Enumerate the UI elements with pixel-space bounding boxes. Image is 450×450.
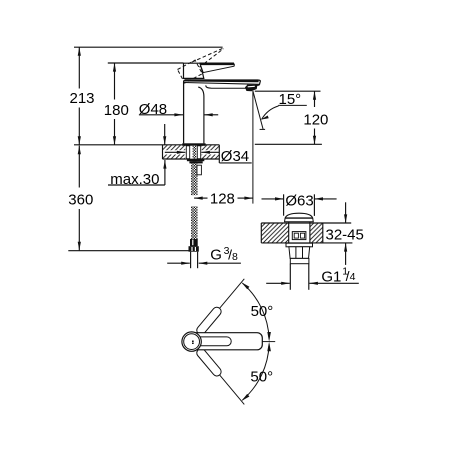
svg-text:Ø48: Ø48: [139, 101, 167, 118]
dimension 180: [104, 63, 129, 145]
faucet body circle (plan view): [182, 332, 201, 351]
extension line top of handle (180 ref): [108, 62, 184, 64]
dimension 213: [69, 47, 94, 145]
drain collar: [290, 258, 309, 263]
dimension G1 1/4: [266, 266, 359, 286]
water stream 15 deg line: [253, 91, 265, 130]
dimension 32-45: [326, 202, 364, 265]
flexible hose lower segment: [191, 206, 198, 239]
label 50 deg lower: [250, 369, 273, 386]
base flange / gasket: [182, 143, 205, 146]
drain tail pipe G1 1/4: [290, 264, 309, 290]
svg-text:G1: G1: [321, 269, 341, 286]
dimension diameter 48: [139, 101, 218, 118]
svg-text:Ø63: Ø63: [285, 193, 313, 210]
handle raised position (dashed): [178, 48, 224, 83]
extension line top of raised handle (213 ref): [74, 46, 223, 48]
svg-text:8: 8: [232, 251, 238, 263]
handle boss: [184, 63, 204, 78]
lever horizontal extension line (plan): [262, 341, 275, 343]
svg-text:180: 180: [104, 102, 129, 119]
svg-text:360: 360: [68, 191, 93, 208]
handle outline rotated down 50 deg: [195, 347, 223, 378]
label 50 deg upper: [251, 303, 274, 320]
drain nut: [289, 247, 310, 259]
50 deg arc upper with arrows: [241, 282, 271, 341]
svg-text:50°: 50°: [251, 303, 274, 320]
svg-text:4: 4: [350, 271, 356, 283]
drain plug cap: [285, 213, 314, 222]
flexible hose upper segment: [191, 163, 201, 195]
label 15 deg: [278, 91, 307, 108]
drain body through deck: [289, 222, 310, 243]
svg-text:213: 213: [69, 90, 94, 107]
spout outlet vertical reference: [252, 91, 254, 204]
handle lever: [200, 63, 235, 73]
15 deg arc with arrow: [261, 106, 279, 120]
G3/8 connection tube: [191, 252, 198, 269]
dimension max.30: [108, 124, 167, 188]
countertop top line / extension: [74, 144, 219, 146]
handle lever (plan view): [190, 333, 263, 350]
svg-text:120: 120: [303, 111, 328, 128]
mounting nut: [187, 159, 204, 164]
dimension diameter 34 (hole): [165, 148, 252, 165]
countertop hatched section: [163, 145, 220, 163]
hose end reference line (360 ref): [68, 250, 188, 252]
handle rotation ray upper 50 deg: [199, 279, 244, 333]
svg-text:G: G: [210, 247, 222, 264]
handle rotation ray lower 50 deg: [199, 350, 244, 404]
svg-text:32-45: 32-45: [326, 227, 364, 244]
handle outline rotated up 50 deg: [195, 306, 223, 337]
svg-text:50°: 50°: [250, 369, 273, 386]
faucet body with spout (side view): [184, 80, 261, 143]
dimension G3/8: [167, 245, 241, 265]
dimension 128: [194, 190, 253, 207]
50 deg arc lower with arrows: [241, 342, 271, 401]
dimension diameter 63: [262, 193, 337, 216]
mounting shank through hole: [186, 146, 202, 164]
hose end nut: [189, 239, 199, 252]
drain washer: [286, 243, 313, 247]
dimension 360: [68, 146, 93, 251]
dimension 120: [255, 91, 329, 144]
svg-text:128: 128: [210, 190, 235, 207]
drain deck hatched section: [261, 223, 352, 243]
